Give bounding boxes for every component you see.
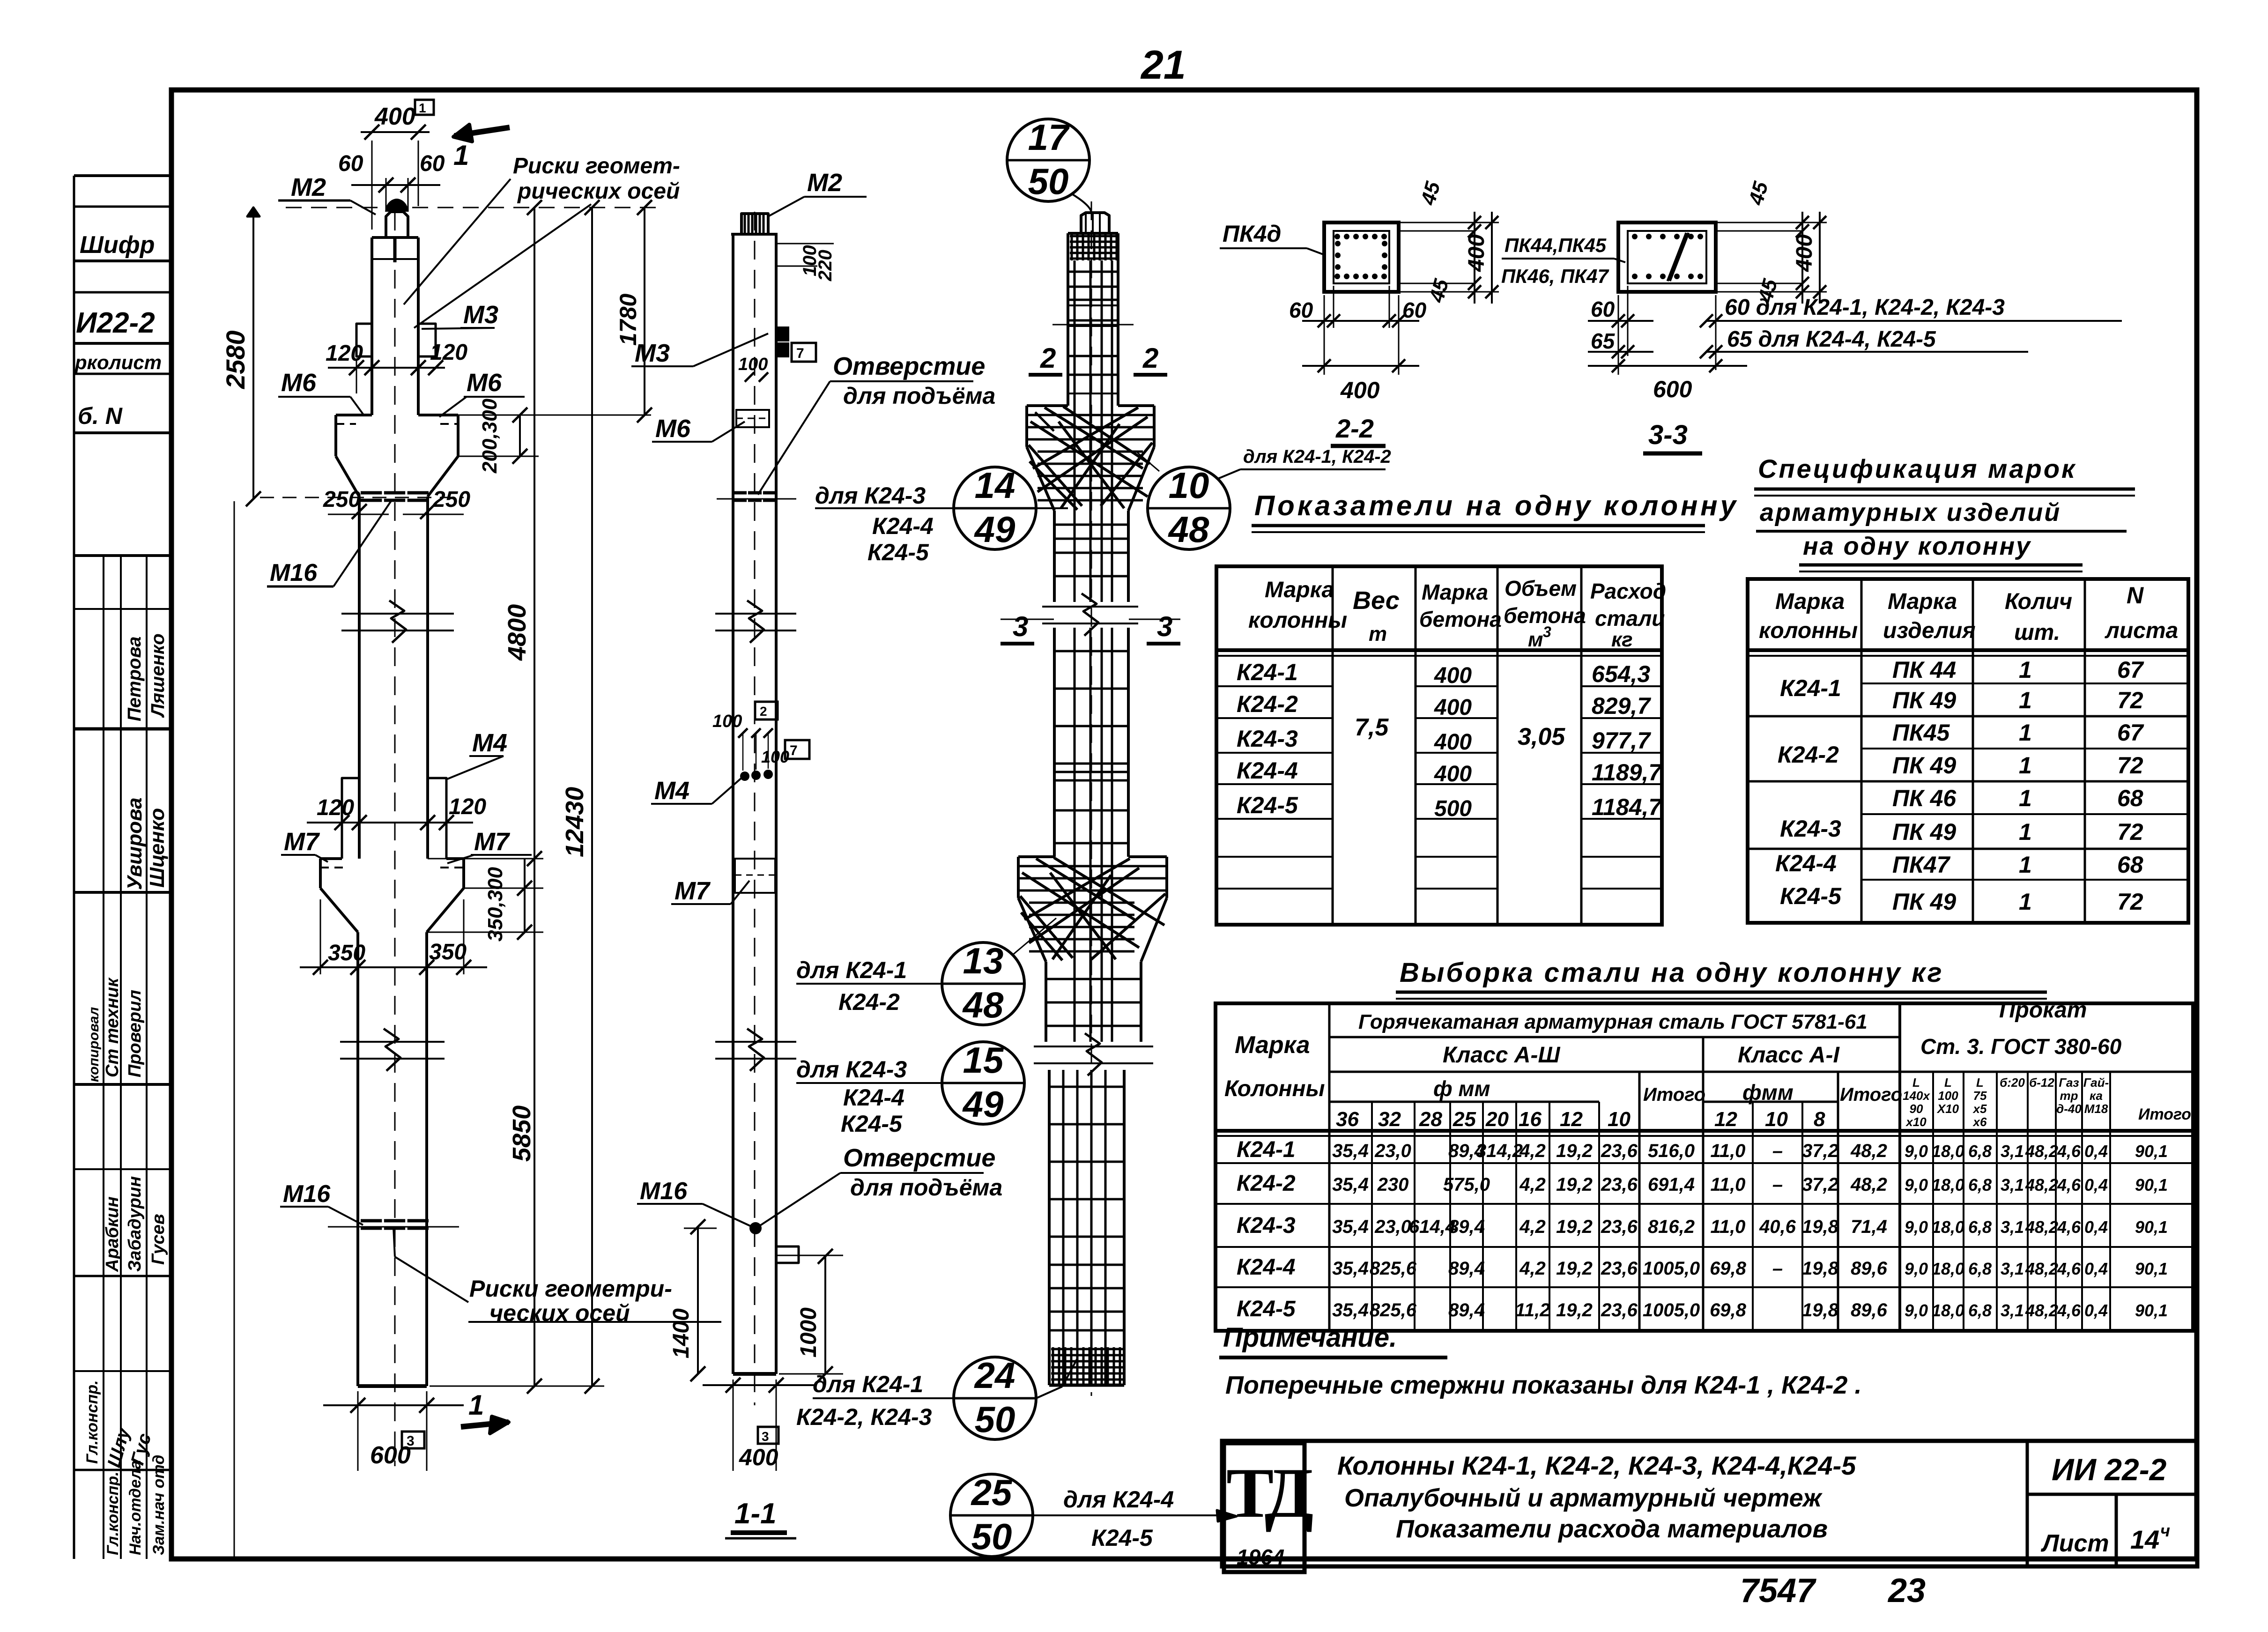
svg-text:1: 1 [2019, 657, 2032, 683]
svg-text:1005,0: 1005,0 [1643, 1300, 1700, 1320]
svg-text:4,2: 4,2 [1519, 1141, 1546, 1161]
svg-text:25: 25 [971, 1472, 1013, 1513]
svg-text:25: 25 [1453, 1108, 1476, 1131]
svg-text:Объем: Объем [1505, 576, 1577, 601]
svg-text:7,5: 7,5 [1355, 714, 1389, 741]
svg-text:7: 7 [790, 743, 798, 758]
svg-text:рколист: рколист [74, 351, 162, 373]
svg-text:Гай-: Гай- [2083, 1076, 2109, 1090]
svg-text:Отверстие: Отверстие [833, 352, 985, 380]
svg-text:65 для К24-4, К24-5: 65 для К24-4, К24-5 [1727, 327, 1936, 352]
svg-text:ТД: ТД [1226, 1454, 1313, 1532]
svg-text:х10: х10 [1905, 1115, 1927, 1129]
svg-text:72: 72 [2117, 889, 2143, 915]
balloon 14/49 with labels [954, 467, 1036, 549]
balloon 24/50 with labels [954, 1357, 1036, 1439]
svg-text:19,8: 19,8 [1802, 1217, 1839, 1237]
svg-text:50: 50 [971, 1516, 1012, 1557]
svg-text:0,4: 0,4 [2084, 1259, 2108, 1278]
svg-text:М18: М18 [2084, 1102, 2108, 1116]
svg-text:500: 500 [1434, 796, 1472, 821]
svg-text:100: 100 [712, 712, 742, 731]
svg-text:ПК 49: ПК 49 [1892, 687, 1956, 713]
svg-text:К24-1: К24-1 [1237, 659, 1298, 685]
svg-text:120: 120 [326, 341, 363, 366]
svg-text:350,300: 350,300 [484, 867, 507, 942]
svg-text:0,4: 0,4 [2084, 1301, 2108, 1320]
svg-text:Расход: Расход [1590, 579, 1666, 603]
svg-text:9,0: 9,0 [1905, 1175, 1928, 1194]
svg-text:60: 60 [338, 151, 363, 176]
svg-text:48,2: 48,2 [1850, 1141, 1887, 1161]
svg-text:4,2: 4,2 [1519, 1258, 1546, 1279]
svg-text:1780: 1780 [615, 294, 641, 346]
svg-text:К24-1: К24-1 [1780, 675, 1841, 701]
svg-text:арматурных изделий: арматурных изделий [1760, 498, 2061, 527]
svg-text:18,0: 18,0 [1932, 1301, 1964, 1320]
svg-text:ПК 49: ПК 49 [1892, 889, 1956, 915]
svg-text:400: 400 [739, 1444, 778, 1470]
svg-text:К24-3: К24-3 [1237, 1213, 1296, 1238]
svg-text:L: L [1944, 1076, 1952, 1090]
svg-text:4,6: 4,6 [2057, 1217, 2081, 1237]
svg-text:Показатели расхода материало: Показатели расхода материалов [1396, 1515, 1828, 1543]
svg-text:2: 2 [760, 704, 767, 719]
svg-text:для К24-1: для К24-1 [796, 957, 907, 983]
svg-text:К24-4: К24-4 [1237, 757, 1298, 784]
svg-text:Ст. 3. ГОСТ 380-60: Ст. 3. ГОСТ 380-60 [1920, 1034, 2122, 1059]
svg-text:Класс А-I: Класс А-I [1738, 1043, 1840, 1068]
svg-text:400: 400 [1792, 234, 1817, 272]
svg-text:36: 36 [1336, 1108, 1359, 1131]
svg-text:копировал: копировал [86, 1007, 102, 1082]
balloon 15/49 with labels [942, 1042, 1024, 1124]
svg-text:35,4: 35,4 [1332, 1217, 1369, 1237]
svg-text:И22-2: И22-2 [76, 307, 155, 339]
svg-text:Гл.конспр.: Гл.конспр. [83, 1380, 101, 1464]
svg-text:бетона: бетона [1419, 607, 1502, 631]
svg-text:6,8: 6,8 [1968, 1175, 1992, 1194]
svg-text:825,6: 825,6 [1370, 1300, 1417, 1320]
svg-text:Выборка стали на одну коло: Выборка стали на одну колонну кг [1400, 957, 1944, 988]
svg-text:100: 100 [738, 355, 768, 374]
svg-text:400: 400 [1434, 663, 1472, 688]
svg-text:19,2: 19,2 [1556, 1141, 1593, 1161]
svg-text:72: 72 [2117, 752, 2143, 779]
svg-text:35,4: 35,4 [1332, 1258, 1369, 1279]
svg-text:23,6: 23,6 [1601, 1141, 1638, 1161]
svg-text:изделия: изделия [1883, 618, 1976, 643]
svg-text:1: 1 [419, 101, 426, 115]
balloon 25/50 with labels [950, 1474, 1033, 1557]
svg-text:28: 28 [1419, 1108, 1442, 1131]
svg-text:120: 120 [317, 795, 354, 820]
svg-text:68: 68 [2117, 785, 2143, 811]
svg-text:6,8: 6,8 [1968, 1301, 1992, 1320]
svg-text:50: 50 [975, 1399, 1015, 1440]
svg-text:Поперечные стержни показаны: Поперечные стержни показаны для К24-1 , … [1225, 1371, 1861, 1399]
svg-text:4800: 4800 [503, 604, 531, 661]
svg-text:90,1: 90,1 [2135, 1142, 2168, 1161]
svg-text:К24-5: К24-5 [1091, 1525, 1153, 1551]
svg-text:Риски геометри-: Риски геометри- [469, 1276, 672, 1302]
svg-text:1189,7: 1189,7 [1592, 759, 1662, 786]
svg-text:18,0: 18,0 [1932, 1217, 1964, 1237]
svg-text:Марка: Марка [1422, 580, 1488, 604]
svg-text:10: 10 [1765, 1108, 1788, 1131]
svg-text:ПК 49: ПК 49 [1892, 752, 1956, 779]
svg-text:3,1: 3,1 [2001, 1301, 2024, 1320]
svg-text:48,2: 48,2 [2025, 1259, 2058, 1278]
svg-text:7547: 7547 [1740, 1572, 1816, 1610]
svg-text:ПК47: ПК47 [1892, 852, 1951, 878]
svg-text:на одну колонну: на одну колонну [1803, 532, 2031, 560]
column K24 second elevation [754, 212, 756, 1405]
cross-section 2-2 [1324, 223, 1399, 292]
svg-text:ф мм: ф мм [1433, 1076, 1490, 1101]
svg-text:ч: ч [2160, 1521, 2170, 1540]
svg-text:М16: М16 [283, 1180, 331, 1208]
svg-text:М3: М3 [635, 339, 670, 367]
svg-text:49: 49 [974, 509, 1015, 550]
svg-text:200,300: 200,300 [478, 398, 501, 474]
svg-text:14: 14 [2130, 1525, 2159, 1554]
svg-text:1: 1 [2019, 852, 2032, 878]
svg-text:32: 32 [1378, 1108, 1401, 1131]
svg-text:48,2: 48,2 [2025, 1301, 2058, 1320]
svg-text:18,0: 18,0 [1932, 1175, 1964, 1194]
svg-text:1: 1 [2019, 720, 2032, 746]
svg-text:Увшрова: Увшрова [123, 797, 146, 890]
svg-text:Шценко: Шценко [146, 808, 169, 888]
svg-text:8: 8 [1814, 1108, 1825, 1131]
svg-text:3,1: 3,1 [2001, 1217, 2024, 1237]
svg-text:60: 60 [1591, 297, 1615, 321]
svg-text:–: – [1772, 1141, 1783, 1161]
svg-text:20: 20 [1485, 1108, 1509, 1131]
svg-text:100: 100 [1938, 1089, 1958, 1103]
svg-text:37,2: 37,2 [1802, 1174, 1838, 1195]
svg-text:–: – [1772, 1174, 1783, 1195]
svg-text:колонны: колонны [1248, 608, 1347, 633]
svg-text:Марка: Марка [1775, 589, 1845, 614]
svg-text:М16: М16 [270, 559, 318, 586]
svg-text:К24-1: К24-1 [1237, 1137, 1296, 1162]
column K24 reinforcement elevation [1091, 201, 1092, 1396]
svg-text:19,8: 19,8 [1802, 1300, 1839, 1320]
svg-text:0,4: 0,4 [2084, 1142, 2108, 1161]
left stamp margin table [73, 176, 75, 1559]
svg-text:314,2: 314,2 [1476, 1141, 1523, 1161]
svg-text:1: 1 [2019, 687, 2032, 713]
column 1 dimensions [371, 141, 373, 230]
svg-text:11,0: 11,0 [1711, 1141, 1746, 1161]
svg-text:М16: М16 [640, 1178, 688, 1205]
svg-text:Показатели на одну колонну: Показатели на одну колонну [1254, 490, 1739, 521]
svg-text:ПК 44: ПК 44 [1892, 657, 1956, 683]
svg-text:72: 72 [2117, 687, 2143, 713]
svg-text:90: 90 [1910, 1102, 1923, 1116]
svg-text:б:20: б:20 [2000, 1076, 2025, 1090]
svg-text:9,0: 9,0 [1905, 1217, 1928, 1237]
svg-text:1-1: 1-1 [734, 1498, 777, 1530]
svg-text:М2: М2 [807, 169, 842, 197]
svg-text:Забадурин: Забадурин [125, 1176, 145, 1272]
svg-text:К24-5: К24-5 [1237, 792, 1298, 818]
svg-text:100: 100 [761, 747, 789, 766]
svg-text:М7: М7 [284, 828, 320, 856]
svg-text:11,0: 11,0 [1711, 1217, 1746, 1237]
svg-text:0,4: 0,4 [2084, 1217, 2108, 1237]
svg-text:220: 220 [815, 250, 836, 282]
svg-text:Вес: Вес [1353, 586, 1400, 615]
svg-text:Риски геомет-: Риски геомет- [513, 154, 680, 178]
svg-text:400: 400 [1464, 234, 1489, 272]
svg-text:1400: 1400 [669, 1308, 694, 1358]
svg-text:825,6: 825,6 [1370, 1258, 1417, 1279]
svg-text:89,6: 89,6 [1851, 1258, 1888, 1279]
svg-text:Гусев: Гусев [148, 1214, 168, 1265]
svg-text:L: L [1976, 1076, 1984, 1090]
svg-text:шт.: шт. [2014, 620, 2060, 645]
svg-text:ПК45: ПК45 [1892, 720, 1950, 746]
svg-text:18,0: 18,0 [1932, 1142, 1964, 1161]
svg-text:стали: стали [1595, 606, 1665, 631]
svg-text:для подъёма: для подъёма [850, 1174, 1002, 1201]
svg-text:600: 600 [1653, 376, 1692, 402]
svg-text:М4: М4 [654, 777, 689, 805]
svg-text:1000: 1000 [796, 1307, 821, 1358]
svg-text:для подъёма: для подъёма [843, 383, 995, 409]
svg-text:90,1: 90,1 [2135, 1301, 2168, 1320]
svg-text:89,4: 89,4 [1448, 1300, 1485, 1320]
svg-text:11,2: 11,2 [1515, 1300, 1550, 1320]
svg-text:Колонны: Колонны [1224, 1076, 1325, 1101]
balloon 10/48 with leader [1148, 467, 1230, 549]
svg-text:2: 2 [1142, 342, 1158, 374]
svg-text:К24-2: К24-2 [838, 989, 900, 1015]
svg-text:19,2: 19,2 [1556, 1174, 1593, 1195]
svg-text:д-40: д-40 [2056, 1102, 2082, 1116]
svg-text:4,6: 4,6 [2057, 1142, 2081, 1161]
svg-text:К24-3: К24-3 [1237, 726, 1298, 752]
svg-text:250: 250 [323, 487, 361, 512]
svg-text:48,2: 48,2 [2025, 1217, 2058, 1237]
svg-text:60: 60 [1289, 298, 1313, 322]
svg-text:Марка: Марка [1888, 589, 1957, 614]
svg-text:9,0: 9,0 [1905, 1259, 1928, 1278]
svg-text:ПК 49: ПК 49 [1892, 819, 1956, 845]
svg-text:для К24-4: для К24-4 [1063, 1486, 1174, 1513]
svg-text:19,2: 19,2 [1556, 1258, 1593, 1279]
svg-text:ПК4д: ПК4д [1223, 221, 1281, 247]
svg-text:400: 400 [1434, 762, 1472, 786]
svg-text:для К24-1: для К24-1 [813, 1371, 923, 1397]
svg-text:для К24-3: для К24-3 [796, 1056, 907, 1083]
svg-text:3: 3 [762, 1429, 769, 1444]
svg-text:для К24-3: для К24-3 [815, 482, 926, 509]
svg-text:60: 60 [420, 151, 445, 176]
svg-text:48,2: 48,2 [2025, 1142, 2058, 1161]
svg-text:К24-4: К24-4 [1237, 1255, 1296, 1280]
svg-text:12: 12 [1714, 1108, 1737, 1131]
svg-text:67: 67 [2117, 720, 2144, 746]
svg-text:23,0: 23,0 [1374, 1141, 1411, 1161]
svg-text:18,0: 18,0 [1932, 1259, 1964, 1278]
svg-text:72: 72 [2117, 819, 2143, 845]
svg-text:11,0: 11,0 [1711, 1174, 1746, 1195]
svg-text:1: 1 [2019, 785, 2032, 811]
svg-text:816,2: 816,2 [1648, 1217, 1695, 1237]
svg-text:12: 12 [1560, 1108, 1583, 1131]
svg-text:49: 49 [962, 1083, 1004, 1125]
svg-text:4,2: 4,2 [1519, 1217, 1546, 1237]
svg-text:М7: М7 [674, 877, 711, 905]
svg-text:Ляшенко: Ляшенко [148, 633, 168, 718]
svg-text:колонны: колонны [1759, 618, 1858, 643]
svg-text:ка: ка [2090, 1089, 2103, 1103]
svg-text:23,6: 23,6 [1601, 1217, 1638, 1237]
svg-text:б-12: б-12 [2029, 1076, 2054, 1090]
svg-text:К24-4: К24-4 [1775, 850, 1837, 876]
svg-text:Газ: Газ [2059, 1076, 2079, 1090]
svg-text:120: 120 [430, 340, 467, 365]
svg-text:516,0: 516,0 [1648, 1141, 1695, 1161]
svg-text:48: 48 [1168, 509, 1209, 550]
svg-text:ПК44,ПК45: ПК44,ПК45 [1505, 234, 1607, 256]
svg-text:19,8: 19,8 [1802, 1258, 1839, 1279]
svg-text:Зам.нач отд: Зам.нач отд [150, 1455, 168, 1555]
svg-text:691,4: 691,4 [1648, 1174, 1695, 1195]
svg-text:400: 400 [374, 103, 415, 130]
svg-text:35,4: 35,4 [1332, 1141, 1369, 1161]
svg-text:23,6: 23,6 [1601, 1258, 1638, 1279]
svg-text:Марка: Марка [1235, 1031, 1310, 1059]
svg-text:М6: М6 [655, 415, 691, 443]
svg-text:Ст техник: Ст техник [103, 977, 122, 1077]
svg-text:654,3: 654,3 [1592, 661, 1650, 687]
svg-text:1: 1 [2019, 889, 2032, 915]
svg-text:68: 68 [2117, 852, 2143, 878]
svg-text:L: L [1912, 1076, 1920, 1090]
balloon 13/48 with labels [942, 942, 1024, 1025]
svg-text:3-3: 3-3 [1648, 420, 1688, 450]
svg-text:–: – [1772, 1258, 1783, 1279]
svg-text:69,8: 69,8 [1710, 1258, 1747, 1279]
svg-text:Марка: Марка [1265, 578, 1334, 602]
svg-text:Итого: Итого [1643, 1084, 1705, 1105]
svg-text:250: 250 [432, 487, 470, 512]
svg-text:1: 1 [2019, 752, 2032, 779]
svg-text:1: 1 [468, 1389, 484, 1421]
svg-text:350: 350 [328, 941, 365, 965]
svg-text:13: 13 [963, 940, 1004, 981]
svg-text:Итого: Итого [2138, 1105, 2191, 1123]
svg-text:3: 3 [1157, 611, 1172, 642]
vertical dimension chains 2580/4800/12430/1780 [234, 501, 235, 1559]
svg-text:Примечание.: Примечание. [1223, 1322, 1397, 1353]
svg-text:19,2: 19,2 [1556, 1300, 1593, 1320]
svg-text:67: 67 [2117, 657, 2144, 683]
svg-text:10: 10 [1169, 465, 1209, 506]
svg-text:23,6: 23,6 [1601, 1174, 1638, 1195]
svg-text:1: 1 [453, 140, 469, 171]
svg-text:37,2: 37,2 [1802, 1141, 1838, 1161]
svg-text:К24-5: К24-5 [841, 1111, 903, 1137]
svg-text:24: 24 [974, 1355, 1015, 1396]
svg-text:листа: листа [2105, 618, 2178, 643]
svg-text:х5: х5 [1972, 1102, 1987, 1116]
svg-text:400: 400 [1340, 377, 1380, 403]
svg-text:К24-2: К24-2 [1237, 1171, 1296, 1196]
svg-text:350: 350 [429, 940, 467, 964]
svg-text:Класс А-Ш: Класс А-Ш [1443, 1043, 1560, 1068]
svg-text:6,8: 6,8 [1968, 1259, 1992, 1278]
svg-text:м: м [1528, 628, 1543, 651]
svg-text:К24-5: К24-5 [1780, 883, 1842, 909]
svg-text:Петрова: Петрова [124, 637, 145, 721]
svg-text:60 для К24-1, К24-2, К24-3: 60 для К24-1, К24-2, К24-3 [1725, 295, 2005, 320]
svg-text:600: 600 [370, 1442, 411, 1469]
svg-text:0,4: 0,4 [2084, 1175, 2108, 1194]
svg-text:89,6: 89,6 [1851, 1300, 1888, 1320]
svg-text:для К24-1, К24-2: для К24-1, К24-2 [1243, 446, 1391, 467]
svg-text:т: т [1369, 623, 1387, 645]
svg-text:75: 75 [1973, 1089, 1987, 1103]
svg-text:К24-2, К24-3: К24-2, К24-3 [796, 1404, 932, 1430]
svg-text:977,7: 977,7 [1592, 727, 1651, 754]
balloon 17/50 [1007, 119, 1090, 201]
svg-text:Спецификация марок: Спецификация марок [1758, 454, 2076, 483]
svg-text:кг: кг [1611, 628, 1633, 651]
svg-text:400: 400 [1434, 730, 1472, 755]
svg-text:21: 21 [1140, 43, 1186, 88]
svg-text:Прокат: Прокат [1999, 998, 2087, 1023]
svg-text:400: 400 [1434, 695, 1472, 720]
svg-text:2580: 2580 [221, 330, 250, 389]
svg-text:3,1: 3,1 [2001, 1259, 2024, 1278]
svg-text:М2: М2 [291, 173, 326, 201]
svg-text:ИИ 22-2: ИИ 22-2 [2052, 1452, 2167, 1487]
title block [1222, 1441, 2197, 1566]
svg-text:5850: 5850 [508, 1105, 536, 1162]
svg-text:3: 3 [1543, 623, 1551, 640]
svg-text:фмм: фмм [1742, 1080, 1794, 1105]
svg-text:4,6: 4,6 [2057, 1175, 2081, 1194]
svg-text:Нач.отдела: Нач.отдела [126, 1461, 144, 1555]
svg-text:3: 3 [1013, 611, 1028, 642]
svg-text:19,2: 19,2 [1556, 1217, 1593, 1237]
svg-text:65: 65 [1591, 329, 1616, 353]
svg-text:1964: 1964 [1237, 1545, 1284, 1569]
svg-text:10: 10 [1608, 1108, 1631, 1131]
svg-text:М6: М6 [281, 369, 317, 397]
svg-text:230: 230 [1377, 1174, 1409, 1195]
svg-text:90,1: 90,1 [2135, 1217, 2168, 1237]
svg-text:2-2: 2-2 [1335, 414, 1374, 443]
svg-text:14: 14 [975, 465, 1015, 506]
svg-text:23,0: 23,0 [1374, 1217, 1411, 1237]
cross-section 3-3 [1618, 223, 1716, 292]
svg-text:Лист: Лист [2040, 1530, 2109, 1557]
svg-text:140х: 140х [1903, 1089, 1930, 1103]
column K24 formwork elevation [394, 212, 396, 1466]
svg-text:1005,0: 1005,0 [1643, 1258, 1700, 1279]
svg-text:69,8: 69,8 [1710, 1300, 1747, 1320]
svg-text:К24-2: К24-2 [1778, 742, 1839, 768]
svg-text:4,6: 4,6 [2057, 1301, 2081, 1320]
svg-text:ПК46, ПК47: ПК46, ПК47 [1501, 265, 1609, 287]
